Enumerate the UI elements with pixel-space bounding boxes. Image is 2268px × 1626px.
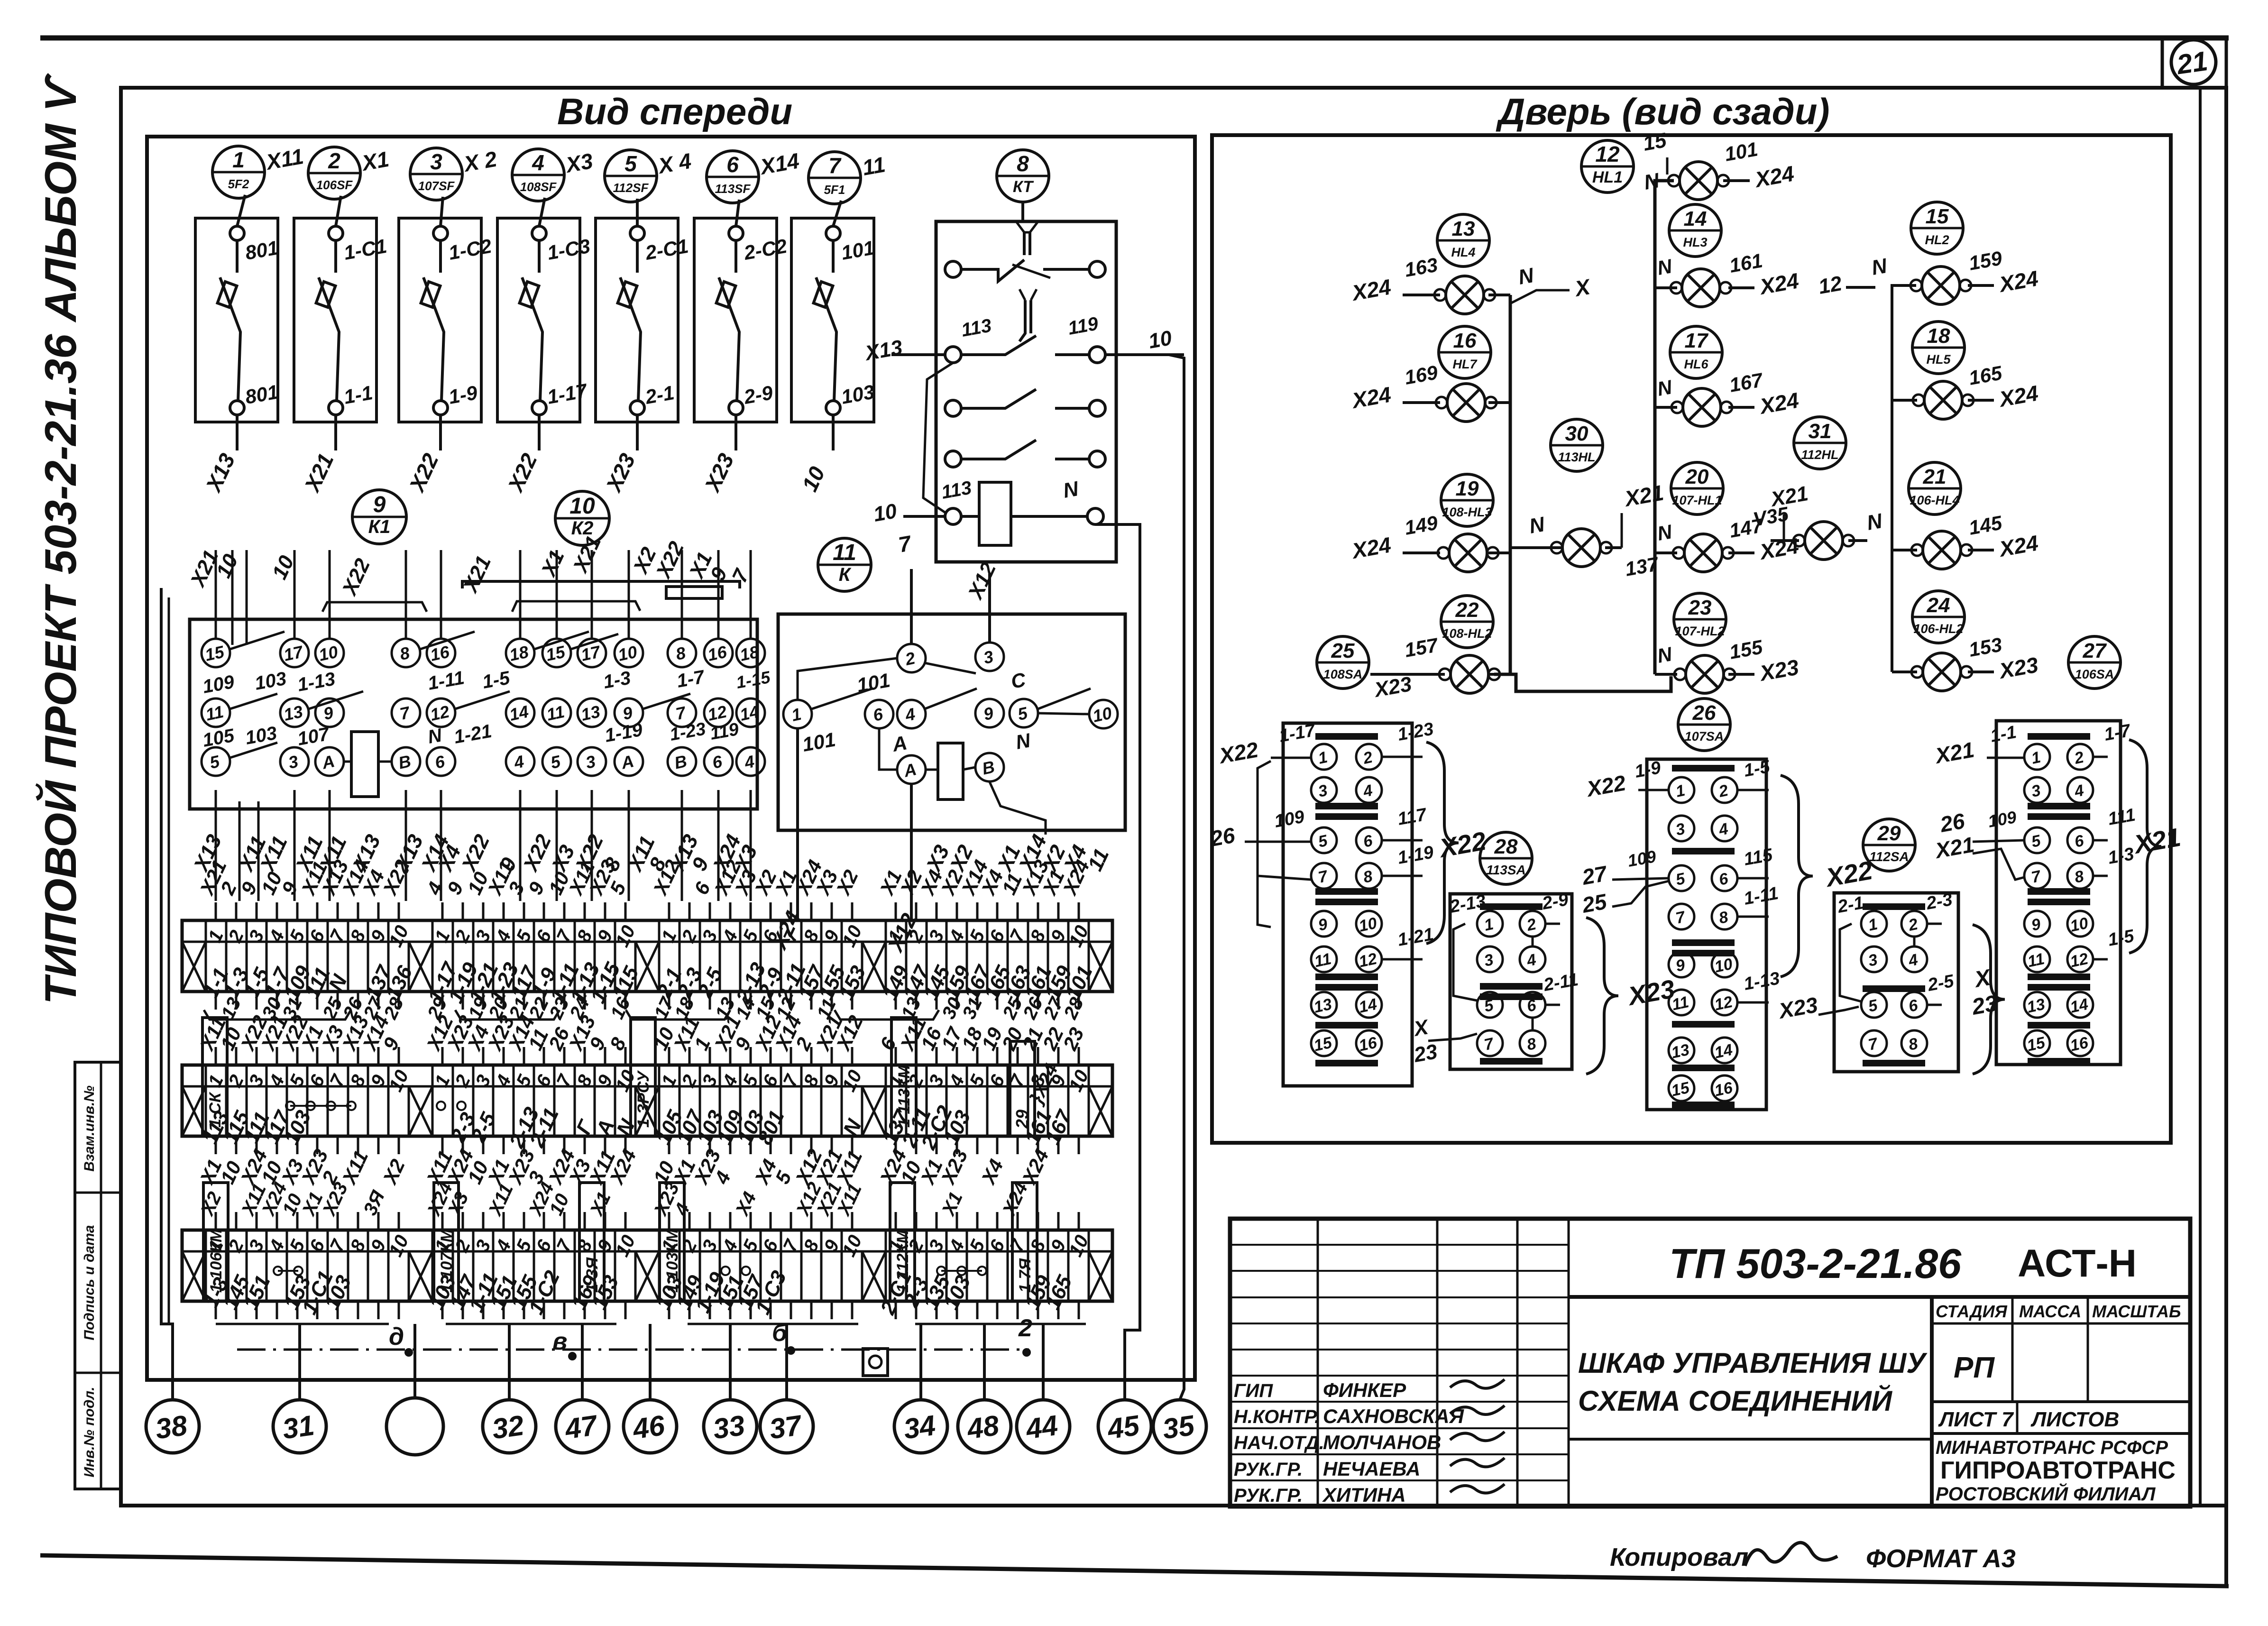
- svg-text:ТИПОВОЙ ПРОЕКТ 503-2-21.36: ТИПОВОЙ ПРОЕКТ 503-2-21.36 АЛЬБОМ Ѵ: [35, 73, 85, 1004]
- relay K pos circle 11: [818, 538, 871, 591]
- svg-text:37: 37: [767, 1409, 804, 1445]
- wire to callout 37: [785, 1324, 788, 1400]
- wire below switch 108SF: [538, 415, 541, 450]
- strip 2 jumper links: [286, 1102, 466, 1110]
- terminal group head 112КМ: [890, 1183, 915, 1301]
- relay K internal wires: [798, 658, 1089, 770]
- wire KT to 10: [1105, 353, 1184, 356]
- collector lines below strip 3: [216, 1323, 1086, 1325]
- terminal group head 7Я: [1012, 1183, 1037, 1301]
- svg-text:5F2: 5F2: [228, 177, 249, 191]
- block B external labels: [1411, 890, 1579, 1067]
- page number circle 21: [2171, 40, 2216, 84]
- terminal group head 103КМ: [660, 1183, 684, 1301]
- relay K coil: [938, 743, 963, 799]
- wire to callout 31: [298, 1324, 301, 1400]
- svg-text:107-HL1: 107-HL1: [1672, 493, 1722, 507]
- dash-dot bus line: [237, 1349, 1029, 1351]
- indicator lamp 8: [1438, 534, 1498, 572]
- labels above relay block: [185, 533, 754, 600]
- terminal strip row 3: [182, 1212, 1112, 1319]
- block C external labels: [1580, 757, 1820, 1024]
- lamp wires and terminal labels right panel: [1349, 129, 2040, 702]
- svg-text:X1: X1: [359, 147, 391, 176]
- pos circle 18 HL5: [1912, 322, 1965, 374]
- svg-text:1 ЗРСУ: 1 ЗРСУ: [634, 1070, 652, 1128]
- stage mass scale header: [1932, 1297, 2190, 1402]
- wire below switch 106SF: [334, 415, 337, 450]
- svg-text:46: 46: [630, 1409, 667, 1445]
- small jumper box above relay: [666, 587, 722, 598]
- indicator lamp 15: [1911, 653, 1972, 691]
- svg-text:РУК.ГР.: РУК.ГР.: [1234, 1485, 1303, 1506]
- svg-text:48: 48: [964, 1409, 1001, 1445]
- pos circle 23 107-HL2: [1674, 593, 1726, 645]
- indicator lamp 1: [1668, 162, 1729, 200]
- sheet bottom trim line: [40, 1555, 2229, 1586]
- switch 5F2 box: [195, 218, 278, 422]
- svg-text:14: 14: [2068, 995, 2090, 1017]
- switch 5F2 contacts: [218, 195, 280, 415]
- right inner border line: [2199, 88, 2202, 1506]
- svg-text:112SA: 112SA: [1869, 849, 1909, 864]
- brace X23 right of block D: [1973, 925, 2005, 1074]
- svg-text:12: 12: [2068, 950, 2090, 971]
- brace over X22 columns: [322, 602, 427, 612]
- svg-text:16: 16: [1453, 329, 1477, 352]
- connector block X21-E (16 pin): [1996, 721, 2121, 1065]
- svg-text:12: 12: [1713, 993, 1734, 1014]
- svg-text:Вид спереди: Вид спереди: [557, 91, 792, 132]
- brace X23 right of block B: [1586, 918, 1618, 1074]
- switch 112SF pos circle 5: [605, 150, 657, 202]
- terminal group head 113КМ: [891, 1018, 916, 1136]
- wire labels between strip 2 and 3: [195, 1146, 1053, 1188]
- wire X12 below relay K: [910, 784, 913, 920]
- indicator lamp 5: [1436, 384, 1497, 422]
- svg-text:106-HL4: 106-HL4: [1910, 493, 1959, 507]
- svg-text:112HL: 112HL: [1801, 448, 1838, 462]
- front-view panel box: [147, 137, 1195, 1380]
- wire to callout 44: [1042, 1324, 1045, 1400]
- svg-text:ЛИСТ 7: ЛИСТ 7: [1938, 1408, 2014, 1431]
- indicator lamp 11: [1793, 522, 1854, 560]
- svg-text:НЕЧАЕВА: НЕЧАЕВА: [1323, 1458, 1421, 1480]
- relay contact slashes: [230, 632, 690, 758]
- switch 113SF contacts: [716, 200, 789, 415]
- svg-text:в: в: [552, 1328, 567, 1355]
- svg-text:26: 26: [1938, 808, 1967, 837]
- svg-text:23: 23: [1688, 596, 1712, 619]
- wire to callout 38: [161, 588, 173, 1400]
- wire below switch 5F1: [832, 415, 835, 450]
- pos circle 29 112SA: [1863, 819, 1915, 871]
- wire below switch 112SF: [636, 415, 639, 450]
- strip 3 jumper links: [274, 1267, 986, 1275]
- switch 5F1 pos circle 7: [808, 152, 861, 204]
- svg-text:18: 18: [508, 642, 531, 665]
- svg-text:10: 10: [872, 499, 899, 526]
- svg-text:10: 10: [1147, 326, 1174, 353]
- svg-text:РУК.ГР.: РУК.ГР.: [1234, 1459, 1303, 1480]
- svg-text:25: 25: [1331, 639, 1355, 662]
- switch 5F1 box: [791, 218, 874, 422]
- svg-text:8: 8: [1017, 151, 1029, 176]
- wire below switch 113SF: [735, 415, 737, 450]
- svg-text:3: 3: [430, 149, 442, 174]
- svg-text:13: 13: [1452, 217, 1475, 240]
- terminal group head 106КМ: [203, 1183, 228, 1301]
- svg-text:30: 30: [1565, 422, 1589, 445]
- svg-text:11: 11: [833, 540, 856, 565]
- svg-text:31: 31: [280, 1409, 316, 1445]
- brace X21 right of block E: [2129, 740, 2161, 953]
- svg-text:47: 47: [562, 1409, 600, 1445]
- svg-text:HL4: HL4: [1451, 245, 1475, 259]
- svg-text:45: 45: [1105, 1409, 1142, 1445]
- svg-text:15: 15: [1641, 129, 1668, 156]
- switch 108SF box: [497, 218, 580, 422]
- doc title cell: [1930, 1297, 1934, 1507]
- svg-text:САХНОВСКАЯ: САХНОВСКАЯ: [1323, 1405, 1464, 1427]
- KT contact blades row 1: [961, 260, 1024, 281]
- svg-text:2: 2: [1018, 1314, 1032, 1342]
- indicator lamp 10: [1673, 534, 1734, 572]
- wire 10 to KT coil left: [903, 515, 945, 518]
- svg-text:X3: X3: [563, 148, 595, 178]
- svg-text:4: 4: [532, 150, 544, 175]
- indicator lamp 4: [1910, 266, 1971, 304]
- bottom callout circle 38: [146, 1400, 199, 1453]
- svg-text:7: 7: [828, 153, 842, 178]
- svg-text:Подпись и дата: Подпись и дата: [82, 1225, 97, 1340]
- svg-text:14: 14: [508, 702, 531, 725]
- svg-text:2: 2: [328, 148, 340, 173]
- left margin stamp table: [75, 1062, 121, 1489]
- svg-text:106SF: 106SF: [316, 178, 353, 192]
- terminal strip row 2: [182, 1047, 1112, 1154]
- wire labels above strip 3: [196, 1179, 1032, 1220]
- svg-text:6: 6: [726, 152, 739, 177]
- indicator lamp 13: [1439, 655, 1500, 693]
- svg-text:12: 12: [1817, 272, 1844, 299]
- brace X22 right of block A: [1426, 742, 1459, 944]
- svg-text:1 112КМ: 1 112КМ: [894, 1230, 912, 1293]
- switch 113SF box: [694, 218, 777, 422]
- svg-text:107SA: 107SA: [1685, 729, 1724, 744]
- relay K1 pins col 2: [280, 639, 309, 776]
- svg-text:35: 35: [1160, 1409, 1197, 1445]
- svg-text:ШКАФ УПРАВЛЕНИЯ ШУ: ШКАФ УПРАВЛЕНИЯ ШУ: [1578, 1347, 1928, 1379]
- bottom callout circle 47: [556, 1400, 609, 1453]
- svg-text:МОЛЧАНОВ: МОЛЧАНОВ: [1323, 1431, 1441, 1453]
- pos circle 16 HL7: [1439, 326, 1491, 378]
- svg-text:113SA: 113SA: [1486, 863, 1526, 877]
- relay K2 pins col 2: [578, 639, 606, 776]
- svg-text:HL5: HL5: [1926, 352, 1951, 367]
- svg-text:13: 13: [1312, 995, 1333, 1017]
- relay K2 pos circle 10: [555, 491, 609, 545]
- bottom callout circle 33: [704, 1400, 757, 1453]
- wire to callout blank: [413, 1324, 416, 1398]
- svg-text:НАЧ.ОТД.: НАЧ.ОТД.: [1234, 1433, 1324, 1453]
- wire to callout 33: [729, 1324, 732, 1400]
- terminal group head ЗРСУ: [631, 1018, 655, 1136]
- svg-text:МАССА: МАССА: [2019, 1302, 2081, 1321]
- svg-text:13: 13: [1670, 1041, 1691, 1062]
- switch 107SF pos circle 3: [410, 148, 462, 200]
- svg-text:10: 10: [1357, 914, 1378, 936]
- svg-text:12: 12: [429, 702, 451, 725]
- relay K2 pins col 4: [668, 639, 696, 776]
- KT contact row pins y=568: [945, 261, 961, 277]
- KT contact row pins y=748: [945, 347, 961, 363]
- svg-text:25: 25: [1580, 889, 1609, 918]
- bottom callout circle 31: [273, 1400, 326, 1453]
- relay contact block K1 K2 box: [190, 619, 757, 809]
- title block outer: [1230, 1219, 2190, 1507]
- doc number cell: [1569, 1295, 2190, 1299]
- wires below relay block: [216, 790, 751, 901]
- relay K2 pins col 1: [542, 639, 571, 776]
- pos circle 25 108SA: [1317, 636, 1369, 689]
- labels below relay block: [189, 831, 1113, 876]
- brace X22 right of block C: [1781, 775, 1813, 977]
- svg-text:108SF: 108SF: [520, 180, 557, 194]
- svg-text:9: 9: [373, 492, 386, 517]
- svg-text:Взам.инв.№: Взам.инв.№: [82, 1085, 97, 1171]
- svg-text:13: 13: [282, 702, 305, 725]
- pos circle 20 107-HL1: [1671, 462, 1723, 514]
- relay K2 pins col 6: [736, 639, 765, 776]
- brace over X21 columns: [512, 601, 640, 612]
- indicator lamp 12: [1911, 531, 1972, 569]
- relay K1 pos circle 9: [352, 490, 406, 544]
- svg-text:1 103КМ: 1 103КМ: [663, 1229, 681, 1293]
- block A external labels: [1208, 719, 1435, 959]
- relay K contact slashes: [812, 663, 1091, 709]
- svg-text:Инв.№ подл.: Инв.№ подл.: [82, 1387, 97, 1477]
- svg-text:113SF: 113SF: [715, 182, 751, 196]
- pos circle 30 113HL: [1551, 419, 1603, 471]
- bottom callout circle 32: [483, 1400, 536, 1453]
- svg-text:14: 14: [1357, 995, 1378, 1017]
- svg-text:24: 24: [1927, 594, 1950, 617]
- indicator lamp 6: [1671, 388, 1732, 426]
- time relay KT box: [936, 221, 1116, 562]
- wire to callout 47: [581, 1324, 584, 1400]
- svg-text:К1: К1: [368, 516, 391, 537]
- svg-text:108-HL3: 108-HL3: [1442, 505, 1492, 519]
- svg-text:28: 28: [1494, 835, 1518, 858]
- svg-text:АСТ-Н: АСТ-Н: [2018, 1242, 2137, 1285]
- sheet row: [1932, 1402, 2190, 1433]
- bottom callout circle 35: [1153, 1400, 1206, 1453]
- svg-text:HL1: HL1: [1592, 168, 1623, 186]
- switch 108SF contacts: [520, 198, 592, 415]
- svg-text:34: 34: [901, 1409, 937, 1445]
- svg-text:ГИПРОАВТОТРАНС: ГИПРОАВТОТРАНС: [1940, 1457, 2176, 1484]
- svg-text:МАСШТАБ: МАСШТАБ: [2092, 1302, 2181, 1321]
- wire labels above strip 1: [195, 856, 1094, 899]
- svg-text:10: 10: [616, 642, 639, 665]
- svg-text:д: д: [389, 1323, 404, 1350]
- pos circle 27 106SA: [2068, 636, 2121, 689]
- pos circle 28 113SA: [1480, 832, 1532, 884]
- svg-text:18: 18: [1927, 324, 1950, 348]
- svg-text:11: 11: [861, 152, 887, 180]
- signature rows text: [1234, 1379, 1505, 1506]
- svg-text:Копировал: Копировал: [1610, 1543, 1748, 1571]
- svg-text:5: 5: [624, 151, 637, 176]
- indicator lamp 14: [1674, 655, 1735, 693]
- wire to callout 48: [983, 1324, 986, 1400]
- switch 113SF pos circle 6: [707, 151, 759, 203]
- svg-text:31: 31: [1809, 420, 1832, 443]
- wire from relay K pin B down: [990, 782, 1046, 835]
- svg-text:19: 19: [1456, 477, 1479, 500]
- pos circle 21 106-HL4: [1909, 462, 1961, 514]
- wire X12 above relay K: [988, 574, 991, 643]
- KT internal left bend wire: [923, 363, 953, 513]
- lamp HL1 pos circle 12: [1581, 140, 1634, 193]
- switch 106SF pos circle 2: [308, 147, 360, 199]
- wire labels above strip 2: [195, 1012, 1088, 1054]
- relay K1 pins col 3: [315, 639, 344, 776]
- wire to callout 46: [649, 1324, 652, 1400]
- title block signature grid: [1230, 1219, 1569, 1507]
- svg-text:14: 14: [1713, 1041, 1734, 1062]
- terminal group head 107КМ: [434, 1183, 459, 1301]
- svg-text:106-HL2: 106-HL2: [1913, 622, 1963, 636]
- block D external labels: [1818, 890, 1956, 1015]
- svg-text:РП: РП: [1954, 1351, 1995, 1384]
- pos circle 17 HL6: [1670, 326, 1722, 378]
- svg-text:113HL: 113HL: [1558, 450, 1595, 464]
- wire to callout 34: [919, 1324, 922, 1400]
- pos circle 22 108-HL2: [1441, 596, 1493, 648]
- svg-text:29: 29: [1877, 822, 1901, 845]
- bottom callout circle 34: [894, 1400, 947, 1453]
- indicator lamp 3: [1671, 269, 1731, 307]
- relay K1 pins col 6: [506, 639, 534, 776]
- indicator lamp 9: [1551, 529, 1612, 567]
- pos circle 19 108-HL3: [1441, 474, 1493, 526]
- svg-text:14: 14: [738, 702, 761, 725]
- relay K1 pins col 5: [427, 639, 455, 776]
- svg-text:СХЕМА СОЕДИНЕНИЙ: СХЕМА СОЕДИНЕНИЙ: [1578, 1385, 1893, 1417]
- KT contact blades row 3: [961, 389, 1036, 408]
- relay K1 pins col 1: [202, 639, 230, 776]
- bottom callout circle 44: [1017, 1400, 1070, 1453]
- relay K2 pins col 5: [704, 639, 733, 776]
- svg-text:HL3: HL3: [1683, 235, 1707, 249]
- door rear-view panel box: [1212, 135, 2171, 1143]
- wire X24 below relay K: [796, 729, 799, 920]
- svg-text:14: 14: [1684, 207, 1707, 230]
- KT N wire going down: [1095, 524, 1140, 612]
- indicator lamp 2: [1434, 276, 1495, 314]
- relay K pins: [783, 643, 1118, 784]
- svg-text:1 106КМ: 1 106КМ: [207, 1229, 225, 1293]
- KT contact blades row 4: [961, 440, 1036, 459]
- earth square symbol: [863, 1349, 888, 1376]
- svg-text:26: 26: [1692, 701, 1716, 725]
- svg-text:10: 10: [317, 642, 340, 665]
- switch 106SF box: [294, 218, 376, 422]
- terminal group head ЗЯ: [579, 1183, 604, 1301]
- svg-text:ГИП: ГИП: [1234, 1380, 1273, 1401]
- bottom callout circle 37: [760, 1400, 813, 1453]
- svg-text:44: 44: [1023, 1409, 1059, 1445]
- svg-text:1 7Я: 1 7Я: [1016, 1258, 1034, 1293]
- svg-text:1: 1: [232, 147, 245, 172]
- svg-text:Н.КОНТР.: Н.КОНТР.: [1234, 1406, 1320, 1427]
- pos circle 31 112HL: [1794, 417, 1846, 469]
- svg-text:107-HL2: 107-HL2: [1675, 624, 1725, 638]
- bottom callout circle 48: [958, 1400, 1011, 1453]
- svg-text:18: 18: [738, 642, 761, 665]
- connector block X23-B (8 pin): [1450, 894, 1572, 1069]
- wire to callout 32: [508, 1324, 511, 1400]
- sheet top trim line: [40, 36, 2229, 41]
- pos circle 14 HL3: [1669, 204, 1721, 257]
- spare head box 29: [1010, 1041, 1035, 1136]
- svg-text:Дверь (вид сзади): Дверь (вид сзади): [1496, 91, 1830, 132]
- wire numbers below strip 1: [217, 993, 1088, 1022]
- switch 108SF pos circle 4: [512, 149, 564, 201]
- svg-text:1 107КМ: 1 107КМ: [438, 1229, 456, 1293]
- relay K1 coil: [351, 732, 378, 797]
- svg-text:10: 10: [1091, 703, 1114, 726]
- switch 5F2 pos circle 1: [212, 146, 265, 198]
- wire to callout 45: [1125, 612, 1140, 1400]
- connector block X23-D (8 pin): [1834, 893, 1958, 1072]
- pos circle 26 107SA: [1678, 698, 1730, 751]
- svg-text:12: 12: [1595, 142, 1620, 166]
- svg-text:107SF: 107SF: [418, 179, 455, 193]
- wire to callout 35: [1169, 355, 1184, 1400]
- svg-text:21: 21: [1923, 465, 1947, 488]
- svg-text:27: 27: [2083, 639, 2107, 662]
- indicator lamp 7: [1913, 381, 1974, 419]
- svg-text:СТАДИЯ: СТАДИЯ: [1936, 1302, 2007, 1321]
- svg-text:106SA: 106SA: [2075, 667, 2114, 681]
- bottom callout circle 46: [624, 1400, 677, 1453]
- terminal strip row 1: [182, 902, 1112, 1010]
- svg-text:32: 32: [490, 1409, 525, 1445]
- pos circle 24 106-HL2: [1912, 591, 1965, 643]
- terminal group head СК: [202, 1018, 227, 1136]
- svg-text:23: 23: [1970, 991, 2000, 1020]
- svg-text:38: 38: [153, 1409, 189, 1445]
- connector block X22-A (16 pin): [1283, 723, 1412, 1086]
- switch 5F1 contacts: [814, 201, 876, 415]
- top link wire over relay block: [462, 581, 740, 588]
- svg-text:5F1: 5F1: [824, 183, 845, 197]
- svg-text:112SF: 112SF: [613, 181, 649, 195]
- svg-text:20: 20: [1685, 465, 1709, 488]
- KT circle stem: [1021, 202, 1024, 221]
- svg-text:17: 17: [1685, 329, 1709, 352]
- wire 7 above relay K: [910, 569, 913, 644]
- relay K box: [778, 614, 1125, 830]
- switch 107SF contacts: [421, 197, 494, 415]
- svg-text:РОСТОВСКИЙ ФИЛИАЛ: РОСТОВСКИЙ ФИЛИАЛ: [1936, 1482, 2156, 1505]
- relay K1 pins col 4: [392, 639, 420, 776]
- svg-text:HL2: HL2: [1925, 233, 1949, 247]
- wire below switch 5F2: [236, 415, 239, 450]
